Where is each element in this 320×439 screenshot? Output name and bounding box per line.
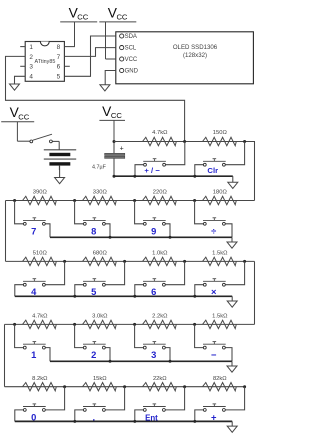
pushbutton 6 row3 xyxy=(143,280,166,282)
junction rail b row2 xyxy=(169,236,172,239)
node C junction xyxy=(243,140,246,143)
resistor R5 220&#937; zigzag row2 xyxy=(143,196,177,204)
resistor R8 680&#937; zigzag row3 xyxy=(83,257,117,265)
wire VCC2 to OLED VCC xyxy=(106,58,116,60)
svg-text:GND: GND xyxy=(125,69,139,75)
svg-text:680Ω: 680Ω xyxy=(93,251,108,257)
svg-text:6: 6 xyxy=(57,64,61,71)
svg-text:7: 7 xyxy=(31,225,36,236)
pushbutton Ent row5 xyxy=(143,406,166,408)
resistor R6 180&#937; zigzag row2 xyxy=(203,196,237,204)
ground row rail row3 xyxy=(231,296,233,301)
wire row horizontal row5 xyxy=(5,386,245,388)
wire row horizontal row2 xyxy=(6,200,255,202)
pushbutton 9 row2 xyxy=(143,219,166,221)
resistor R14 1.5k&#937; zigzag row4 xyxy=(203,320,237,328)
svg-text:1.5kΩ: 1.5kΩ xyxy=(212,314,228,320)
resistor R18 82k&#937; zigzag row5 xyxy=(203,383,237,391)
svg-text:3.0kΩ: 3.0kΩ xyxy=(92,314,108,320)
ground row rail row4 xyxy=(231,361,233,366)
pushbutton Clr xyxy=(203,160,226,162)
wire row2 to row3 left rail xyxy=(5,201,7,262)
pushbutton 1 row4 xyxy=(23,343,46,345)
junction rail b row5 xyxy=(133,420,136,423)
pushbutton 5 row3 xyxy=(83,280,106,282)
node A junction xyxy=(113,140,116,143)
junction row1 rail b xyxy=(193,175,196,178)
battery BT1 xyxy=(44,149,76,151)
junction rail b row3 xyxy=(133,295,136,298)
svg-text:220Ω: 220Ω xyxy=(153,190,168,196)
svg-text:4.7kΩ: 4.7kΩ xyxy=(152,130,168,136)
svg-text:Clr: Clr xyxy=(207,166,218,175)
power VCC rail 2 (OLED) xyxy=(99,21,136,23)
ground row1 rail xyxy=(232,176,234,182)
wire row3 to row4 right rail xyxy=(254,261,256,324)
svg-text:9: 9 xyxy=(151,225,156,236)
svg-text:510Ω: 510Ω xyxy=(33,251,48,257)
wire row1 to row2 right rail xyxy=(254,142,256,201)
resistor R12 3.0k&#937; zigzag row4 xyxy=(83,320,117,328)
wire pin6 stub xyxy=(64,65,69,67)
junction node 3 row5 xyxy=(243,385,246,388)
svg-text:150Ω: 150Ω xyxy=(213,130,228,136)
junction rail c row5 xyxy=(193,420,196,423)
junction rail a row5 xyxy=(73,420,76,423)
IC U1 ATtiny85 body xyxy=(25,42,64,82)
svg-text:1.0kΩ: 1.0kΩ xyxy=(152,251,168,257)
junction rail a row4 xyxy=(109,360,112,363)
wire pin8 to VCC xyxy=(64,46,75,48)
junction tap 1 row2 xyxy=(73,199,76,202)
svg-text:÷: ÷ xyxy=(211,225,216,236)
svg-text:1: 1 xyxy=(29,44,33,51)
wire VCC to switch xyxy=(17,140,29,142)
junction node 0 row3 xyxy=(63,260,66,263)
resistor R3 390&#937; zigzag row2 xyxy=(23,196,57,204)
wire pin2 to ladder node B xyxy=(6,56,185,141)
svg-text:22kΩ: 22kΩ xyxy=(153,376,167,382)
svg-text:15kΩ: 15kΩ xyxy=(93,376,107,382)
junction rail a row2 xyxy=(109,236,112,239)
svg-text:1.5kΩ: 1.5kΩ xyxy=(212,251,228,257)
svg-text:1: 1 xyxy=(31,349,36,360)
wire row bottom rail row4 xyxy=(50,360,232,362)
junction row1 rail left xyxy=(113,175,116,178)
wire pin5 to OLED SDA xyxy=(64,36,115,76)
ground row rail row2 xyxy=(231,237,233,242)
junction row1 rail a xyxy=(133,175,136,178)
wire row horizontal row4 xyxy=(5,323,255,325)
resistor R17 22k&#937; zigzag row5 xyxy=(143,383,177,391)
svg-text:390Ω: 390Ω xyxy=(33,190,48,196)
pushbutton 8 row2 xyxy=(83,219,106,221)
wire OLED GND to ground xyxy=(105,71,116,85)
wire battery to ground xyxy=(58,166,60,170)
svg-text:7: 7 xyxy=(57,54,61,61)
svg-text:8.2kΩ: 8.2kΩ xyxy=(32,376,48,382)
junction tap 3 row2 xyxy=(193,199,196,202)
pushbutton 3 row4 xyxy=(143,343,166,345)
resistor R16 15k&#937; zigzag row5 xyxy=(83,383,117,391)
wire pin3 stub xyxy=(20,65,25,67)
junction node 3 row3 xyxy=(243,260,246,263)
junction node 1 row5 xyxy=(123,385,126,388)
resistor R13 2.2k&#937; zigzag row4 xyxy=(143,320,177,328)
power VCC rail keypad xyxy=(99,119,125,121)
svg-text:5: 5 xyxy=(57,74,61,81)
wire row horizontal row3 xyxy=(6,260,255,262)
ground row rail row5 xyxy=(231,421,233,426)
junction rail c row3 xyxy=(193,295,196,298)
resistor R4 330&#937; zigzag row2 xyxy=(83,196,117,204)
svg-text:VCC: VCC xyxy=(125,57,138,63)
junction node 2 row3 xyxy=(183,260,186,263)
ground under battery xyxy=(59,166,61,178)
junction node 1 row3 xyxy=(123,260,126,263)
svg-text:SCL: SCL xyxy=(125,46,137,52)
junction tap 1 row4 xyxy=(73,323,76,326)
wire row bottom rail row3 xyxy=(15,295,232,297)
pushbutton &#215; row3 xyxy=(203,280,226,282)
resistor R7 510&#937; zigzag row3 xyxy=(23,257,57,265)
svg-text:+ / −: + / − xyxy=(144,166,160,175)
svg-text:(128x32): (128x32) xyxy=(183,52,207,59)
junction tap 2 row4 xyxy=(133,323,136,326)
pushbutton 4 row3 xyxy=(23,280,46,282)
svg-text:4.7µF: 4.7µF xyxy=(92,165,107,171)
U2 pin GND xyxy=(120,68,124,72)
U2 pin SCL xyxy=(120,46,124,50)
wire row1 bottom rail xyxy=(114,175,233,177)
power VCC rail 1 (pin 8) xyxy=(60,21,97,23)
svg-text:180Ω: 180Ω xyxy=(213,190,228,196)
resistor R9 1.0k&#937; zigzag row3 xyxy=(143,257,177,265)
pushbutton &#8722; row4 xyxy=(203,343,226,345)
pushbutton &#247; row2 xyxy=(203,219,226,221)
svg-text:4.7kΩ: 4.7kΩ xyxy=(32,314,48,320)
display U2 OLED SSD1306 body xyxy=(116,32,254,84)
wire pin7 to OLED SCL xyxy=(64,48,115,57)
junction tap 3 row4 xyxy=(193,323,196,326)
svg-text:4: 4 xyxy=(29,74,33,81)
junction node 2 row5 xyxy=(183,385,186,388)
junction rail b row4 xyxy=(169,360,172,363)
svg-text:2.2kΩ: 2.2kΩ xyxy=(152,314,168,320)
svg-text:ATtiny85: ATtiny85 xyxy=(34,59,55,65)
wire pin4 to ground xyxy=(15,76,26,84)
junction node 0 row5 xyxy=(63,385,66,388)
svg-text:3: 3 xyxy=(29,64,33,71)
svg-text:2: 2 xyxy=(91,349,96,360)
U2 pin VCC xyxy=(120,57,124,61)
svg-text:SDA: SDA xyxy=(125,34,137,40)
ground under pin 4 xyxy=(10,84,20,90)
wire row1 horizontal xyxy=(114,141,255,143)
power VCC rail battery xyxy=(1,121,34,123)
junction rail a row3 xyxy=(73,295,76,298)
wire row4 to row5 left rail xyxy=(4,324,6,386)
resistor R10 1.5k&#937; zigzag row3 xyxy=(203,257,237,265)
pushbutton +/- xyxy=(143,160,166,162)
pushbutton 0 row5 xyxy=(23,406,46,408)
resistor R11 4.7k&#937; zigzag row4 xyxy=(23,320,57,328)
junction tap 2 row2 xyxy=(133,199,136,202)
node B junction xyxy=(183,140,186,143)
svg-text:8: 8 xyxy=(91,225,96,236)
svg-text:+: + xyxy=(120,146,124,153)
svg-text:OLED SSD1306: OLED SSD1306 xyxy=(173,44,218,51)
pushbutton . row5 xyxy=(83,406,106,408)
wire switch to battery xyxy=(58,141,60,149)
wire pin1 stub xyxy=(20,46,25,48)
U2 pin SDA xyxy=(120,34,124,38)
resistor R15 8.2k&#937; zigzag row5 xyxy=(23,383,57,391)
svg-text:3: 3 xyxy=(151,349,156,360)
pushbutton + row5 xyxy=(203,406,226,408)
svg-text:−: − xyxy=(211,349,217,360)
pushbutton 2 row4 xyxy=(83,343,106,345)
junction tap 0 row2 xyxy=(13,199,16,202)
resistor R2 150 zigzag xyxy=(203,137,237,145)
svg-text:8: 8 xyxy=(57,44,61,51)
svg-text:330Ω: 330Ω xyxy=(93,190,108,196)
svg-text:2: 2 xyxy=(29,54,33,61)
svg-text:82kΩ: 82kΩ xyxy=(213,376,227,382)
junction tap 0 row4 xyxy=(13,323,16,326)
wire row bottom rail row2 xyxy=(50,236,232,238)
switch S1 xyxy=(30,140,33,143)
pushbutton 7 row2 xyxy=(23,219,46,221)
ground under OLED xyxy=(100,85,110,91)
wire row bottom rail row5 xyxy=(15,420,232,422)
resistor R1 4.7k zigzag xyxy=(143,137,177,145)
capacitor C1 4.7uF xyxy=(113,142,115,154)
